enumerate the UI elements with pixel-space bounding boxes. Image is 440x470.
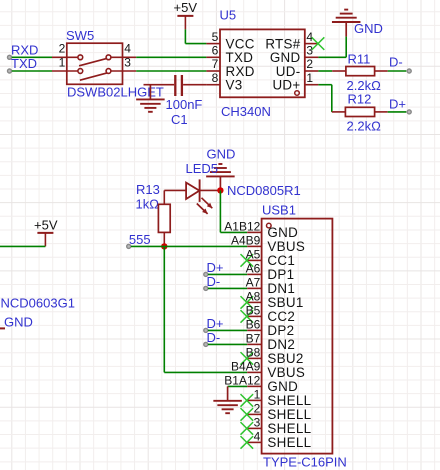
svg-text:4: 4 <box>124 42 131 56</box>
svg-text:GND: GND <box>267 225 298 240</box>
svg-text:CC1: CC1 <box>267 253 295 268</box>
svg-text:A8: A8 <box>246 289 261 303</box>
svg-text:555: 555 <box>129 232 151 247</box>
svg-text:7: 7 <box>212 57 219 71</box>
svg-text:B8: B8 <box>246 345 261 359</box>
svg-text:TYPE-C16PIN: TYPE-C16PIN <box>263 455 347 470</box>
svg-text:DP2: DP2 <box>267 323 294 338</box>
svg-text:VBUS: VBUS <box>267 365 305 380</box>
svg-text:8: 8 <box>212 71 219 85</box>
svg-text:D-: D- <box>207 330 221 345</box>
svg-text:5: 5 <box>212 30 219 44</box>
svg-text:U5: U5 <box>220 8 237 23</box>
svg-text:SHELL: SHELL <box>267 393 311 408</box>
svg-text:LED5: LED5 <box>186 161 219 176</box>
svg-text:1kΩ: 1kΩ <box>136 197 160 212</box>
svg-text:A5: A5 <box>246 247 261 261</box>
svg-text:R11: R11 <box>348 52 371 67</box>
svg-text:B1A12: B1A12 <box>224 373 260 387</box>
svg-text:B5: B5 <box>246 303 261 317</box>
svg-text:CH340N: CH340N <box>221 104 271 119</box>
svg-text:A7: A7 <box>246 275 261 289</box>
svg-text:SHELL: SHELL <box>267 435 311 450</box>
svg-text:1: 1 <box>59 55 66 69</box>
svg-text:SHELL: SHELL <box>267 407 311 422</box>
svg-text:1: 1 <box>306 71 313 85</box>
svg-text:SW5: SW5 <box>66 28 94 43</box>
svg-text:C1: C1 <box>171 112 188 127</box>
svg-text:DP1: DP1 <box>267 267 294 282</box>
svg-text:NCD0603G1: NCD0603G1 <box>1 296 75 311</box>
svg-text:6: 6 <box>212 44 219 58</box>
svg-text:TXD: TXD <box>11 56 37 71</box>
svg-text:D-: D- <box>207 274 221 289</box>
svg-text:A6: A6 <box>246 261 261 275</box>
svg-text:SBU2: SBU2 <box>267 351 303 366</box>
svg-text:A4B9: A4B9 <box>231 233 261 247</box>
svg-text:D-: D- <box>389 55 403 70</box>
svg-text:B4A9: B4A9 <box>231 359 261 373</box>
svg-text:B6: B6 <box>246 317 261 331</box>
svg-text:V3: V3 <box>226 78 243 93</box>
svg-text:D+: D+ <box>207 260 224 275</box>
svg-text:1: 1 <box>254 387 261 401</box>
svg-text:100nF: 100nF <box>166 97 203 112</box>
svg-text:D+: D+ <box>207 316 224 331</box>
svg-text:SBU1: SBU1 <box>267 295 303 310</box>
svg-text:2: 2 <box>306 57 313 71</box>
svg-text:A1B12: A1B12 <box>224 219 260 233</box>
svg-text:3: 3 <box>306 44 313 58</box>
svg-text:VBUS: VBUS <box>267 239 305 254</box>
svg-text:UD+: UD+ <box>272 78 300 93</box>
svg-text:GND: GND <box>267 379 298 394</box>
svg-text:SHELL: SHELL <box>267 421 311 436</box>
svg-text:2: 2 <box>59 42 66 56</box>
svg-text:NCD0805R1: NCD0805R1 <box>227 183 301 198</box>
svg-text:3: 3 <box>254 415 261 429</box>
svg-text:+5V: +5V <box>174 0 198 15</box>
svg-text:USB1: USB1 <box>262 202 296 217</box>
svg-text:4: 4 <box>254 429 261 443</box>
svg-text:DSWB02LHGET: DSWB02LHGET <box>67 85 164 100</box>
svg-text:GND: GND <box>354 21 383 36</box>
svg-text:GND: GND <box>207 147 236 162</box>
svg-text:R13: R13 <box>136 182 160 197</box>
svg-text:GND: GND <box>4 315 33 330</box>
svg-text:3: 3 <box>124 55 131 69</box>
svg-text:D+: D+ <box>389 97 406 112</box>
svg-text:CC2: CC2 <box>267 309 295 324</box>
svg-text:2: 2 <box>254 401 261 415</box>
svg-text:R12: R12 <box>348 91 372 106</box>
svg-text:DN1: DN1 <box>267 281 295 296</box>
svg-text:+5V: +5V <box>34 218 58 233</box>
svg-text:2.2kΩ: 2.2kΩ <box>347 119 382 134</box>
svg-text:4: 4 <box>306 30 313 44</box>
svg-text:DN2: DN2 <box>267 337 295 352</box>
svg-text:B7: B7 <box>246 331 261 345</box>
